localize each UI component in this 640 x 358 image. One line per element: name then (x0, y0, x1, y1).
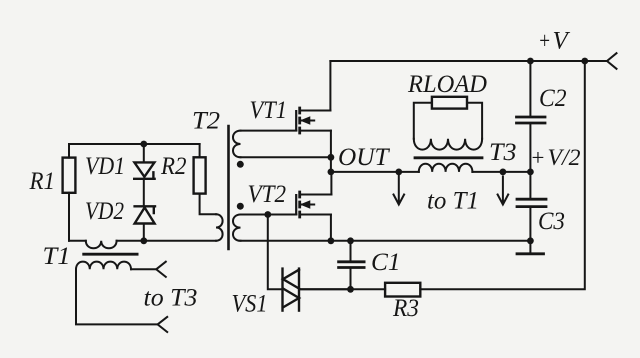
wire VT1 source down (330, 131, 332, 172)
node C1 top (347, 237, 354, 244)
svg-text:R2: R2 (160, 153, 186, 180)
wire upper secondary to OUT node (241, 156, 331, 158)
wire VT2 source down (330, 215, 332, 241)
wire VD1 top lead (143, 144, 145, 162)
connector to T3 lower (158, 317, 168, 332)
node C1 bottom (347, 286, 354, 293)
wire R1 top lead (68, 144, 70, 158)
svg-text:T3: T3 (489, 139, 517, 166)
resistor RLOAD (432, 97, 467, 109)
transistor VT2 (296, 191, 331, 219)
svg-text:C2: C2 (539, 85, 567, 112)
node C3 bottom (527, 237, 534, 244)
connector to T3 upper (156, 262, 166, 277)
svg-text:VD2: VD2 (85, 198, 124, 225)
node junction top (VD branch) (140, 141, 147, 148)
triac VS1 (283, 269, 300, 311)
transformer T2 upper secondary winding (233, 131, 241, 158)
resistor R3 (385, 283, 420, 297)
svg-text:VT2: VT2 (248, 181, 287, 208)
wire VT1 drain to +V rail (329, 61, 331, 111)
wire C2 bottom lead (529, 124, 531, 171)
wire C3 top lead (529, 172, 531, 198)
svg-text:T2: T2 (192, 108, 220, 135)
svg-text:VT1: VT1 (250, 97, 288, 124)
node junction bottom (VD branch) (140, 237, 147, 244)
node gate VT2 / VS1 branch (264, 211, 271, 218)
svg-text:C1: C1 (371, 249, 401, 276)
transformer T3 lower winding (419, 164, 473, 172)
arrow to T1 (right) (498, 177, 509, 205)
node right rail top (581, 58, 588, 65)
node C2 top (527, 58, 534, 65)
wire VD2 bottom lead (143, 224, 145, 241)
wire bottom rail (241, 240, 531, 242)
resistor R2 (194, 157, 206, 193)
svg-text:VS1: VS1 (232, 291, 268, 318)
svg-text:+: + (538, 29, 551, 55)
svg-text:C3: C3 (538, 208, 565, 235)
wire ground stub (529, 241, 531, 253)
transistor VT1 (296, 107, 331, 135)
capacitor C1 (339, 262, 365, 268)
svg-text:RLOAD: RLOAD (407, 71, 487, 98)
transformer T2 primary winding (216, 214, 223, 241)
transformer T1 secondary winding (76, 262, 131, 270)
capacitor C3 (517, 199, 546, 206)
svg-text:to T1: to T1 (427, 188, 479, 215)
node VT2 source (328, 237, 335, 244)
svg-text:R1: R1 (29, 168, 55, 195)
phase dot upper secondary (237, 161, 244, 168)
capacitor C2 (517, 117, 546, 123)
zener diode VD2 (135, 206, 155, 223)
wire R1 bottom lead (68, 193, 70, 241)
wire T1 secondary upper lead (131, 268, 156, 270)
wire T1 secondary lower lead (76, 269, 158, 324)
svg-text:to T3: to T3 (144, 285, 198, 312)
svg-text:V/2: V/2 (548, 145, 581, 170)
wire top of left loop (69, 143, 200, 145)
wire RLOAD right lead (467, 103, 482, 139)
transformer T3 core (415, 156, 482, 159)
svg-text:T1: T1 (43, 243, 71, 270)
svg-text:R3: R3 (392, 295, 419, 322)
wire C3 bottom lead (529, 208, 531, 241)
connector +V terminal (607, 53, 617, 69)
svg-text:OUT: OUT (338, 144, 391, 171)
wire VS1 to R3 (299, 288, 351, 290)
wire C1 bottom lead (350, 269, 352, 289)
svg-text:+: + (530, 145, 546, 170)
transformer T1 primary winding (86, 241, 117, 248)
wire VS1 gate branch (268, 215, 283, 290)
transformer T2 lower secondary winding (233, 215, 241, 241)
wire VT2 drain to OUT (330, 172, 332, 195)
phase dot lower secondary (237, 203, 244, 210)
arrow to T1 (left) (394, 176, 405, 205)
node +V/2 (527, 169, 534, 176)
transformer T1 core (84, 253, 137, 256)
node VT1 source / winding (328, 154, 335, 161)
svg-text:VD1: VD1 (85, 153, 125, 180)
wire gate VT2 (241, 214, 297, 216)
wire R2 top lead (199, 144, 201, 157)
wire bottom of left loop (69, 240, 216, 242)
wire OUT line (331, 171, 531, 173)
resistor R1 (63, 158, 76, 193)
wire +V rail (330, 60, 607, 62)
wire C2 top lead (529, 61, 531, 115)
transformer T3 upper winding (RLOAD side) (414, 139, 482, 150)
zener diode VD1 (134, 162, 154, 178)
wire VD1-VD2 link (143, 179, 145, 207)
wire right rail (420, 61, 585, 289)
transformer T2 core (227, 126, 230, 249)
wire gate VT1 (241, 130, 297, 132)
wire R3 left lead (299, 288, 385, 290)
wire C1 top lead (350, 241, 352, 261)
wire RLOAD left lead (414, 103, 432, 139)
ground (517, 252, 544, 255)
node OUT-line arrow 2 (500, 169, 507, 176)
wire R2 bottom lead (200, 194, 216, 215)
node OUT (328, 169, 335, 176)
node OUT-line arrow 1 (395, 169, 402, 176)
